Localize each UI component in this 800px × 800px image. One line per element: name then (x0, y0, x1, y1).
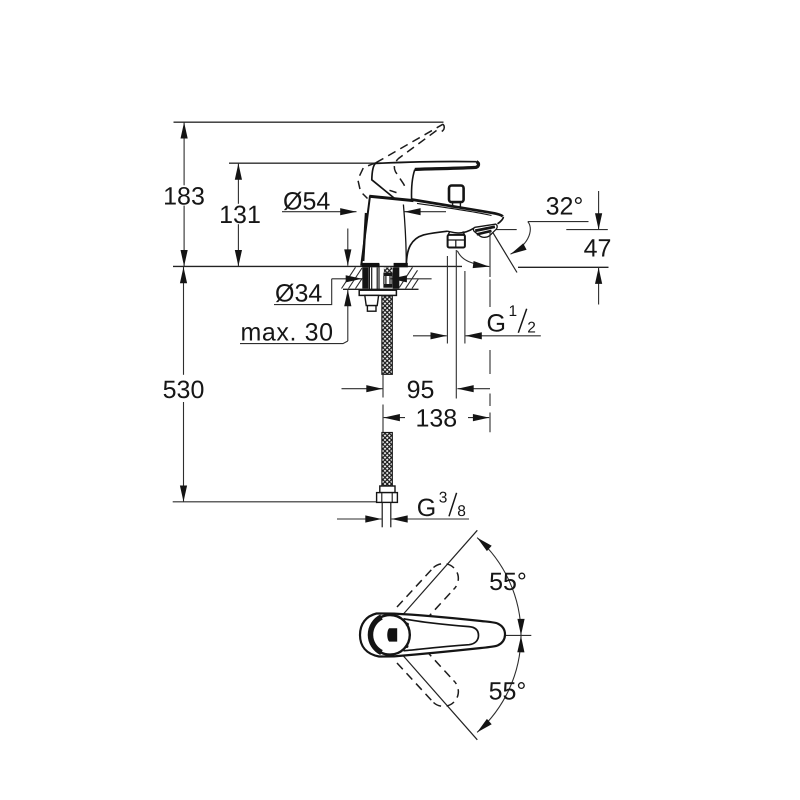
svg-text:G: G (487, 310, 506, 338)
dim 95 extension tick (382, 373, 384, 398)
deck hatching left (342, 267, 363, 288)
connector centre extension line (455, 250, 457, 399)
mounting nut below washer (365, 295, 379, 305)
dim 131 reference line (229, 162, 376, 164)
diverter knob stem (453, 203, 461, 207)
hose G3/8 collar (380, 486, 395, 493)
dim max30 down arrow (347, 229, 349, 266)
dim 47 lower arrow (598, 268, 600, 305)
top view: 55deg lower diagonal (403, 656, 477, 740)
top view: handle slot (387, 628, 397, 641)
spout top edge (412, 200, 503, 217)
lever butt outline (372, 163, 395, 198)
dim 95 left arrow (342, 388, 383, 390)
countertop deck bottom line (343, 288, 419, 290)
base column left edge (361, 196, 370, 266)
svg-text:530: 530 (163, 376, 205, 404)
mounting washer below deck (359, 290, 396, 295)
raised lever lower dashed edge (394, 131, 436, 191)
diverter knob (449, 186, 464, 203)
label G 3/8 (417, 490, 466, 522)
svg-text:131: 131 (219, 201, 261, 229)
dim 138 left arrow (384, 417, 405, 419)
dim 32deg angle arc arrow (511, 222, 531, 255)
dim G12 right extension line (464, 271, 466, 344)
dim G12 left arrow (413, 335, 447, 337)
label G 1/2 (487, 303, 536, 337)
dim max30 up arrow (347, 290, 349, 341)
top view: cap left thick crescent (370, 617, 381, 653)
dim D34 right arrow (391, 278, 432, 280)
dim G38 left arrow (337, 518, 382, 520)
svg-text:95: 95 (407, 376, 435, 404)
solid lever tip and dark underside (415, 162, 479, 170)
svg-text:8: 8 (457, 503, 466, 520)
top view: lower 55 arc (477, 636, 521, 732)
top view: solid handle outer outline (360, 614, 505, 657)
hose G3/8 end pipe (382, 502, 391, 527)
dim D34 left arrow (332, 278, 362, 280)
top view: 55deg upper diagonal (403, 530, 477, 614)
top view: dashed handle rotated up (397, 564, 458, 620)
dim D34 leader riser (274, 279, 332, 305)
svg-text:1: 1 (509, 303, 518, 320)
aerator centre solid line (489, 231, 491, 277)
top view: handle inner surface outline (404, 619, 479, 651)
aerator (473, 224, 497, 237)
raised lever butt bottom dash (390, 190, 397, 192)
svg-text:138: 138 (415, 405, 457, 433)
svg-text:max. 30: max. 30 (241, 318, 334, 346)
svg-text:55°: 55° (489, 678, 527, 706)
dim 47 upper arrow (598, 191, 600, 230)
spout top highlight line (417, 203, 492, 215)
flexible hose lower section (382, 433, 392, 487)
lever neck front edge (412, 170, 415, 200)
hose G3/8 hex nut (377, 493, 398, 503)
dim 530 vertical arrow line (183, 267, 185, 502)
handshower G12 connector body (448, 235, 465, 248)
svg-text:183: 183 (163, 182, 205, 210)
svg-text:G: G (417, 494, 436, 522)
deck hole right black wall (393, 268, 400, 289)
raised lever upper dashed edge (376, 124, 443, 163)
dim D54 right arrow (404, 211, 446, 213)
deck hole left black wall (362, 268, 368, 289)
svg-text:Ø34: Ø34 (275, 279, 322, 307)
svg-text:32°: 32° (546, 192, 584, 220)
spout connector leader arc arrow (457, 251, 489, 267)
top view: marker dots (406, 623, 409, 626)
faucet handle lifted dashed top line contact (358, 124, 444, 198)
body shoulder dark band (369, 196, 413, 200)
dim 138 extension tick (382, 405, 384, 433)
body underside silhouette curve (406, 231, 447, 266)
top view: upper 55 arc (477, 538, 521, 636)
dim G12 right arrow underline (466, 335, 541, 337)
dim 183 vertical arrow line (183, 122, 185, 266)
dim D54 underline leader arrow (282, 211, 357, 213)
dim max30 leader elbow (240, 341, 348, 344)
dim 32deg underline (528, 221, 589, 223)
svg-text:3: 3 (439, 490, 448, 507)
faucet mounting stud through deck (369, 264, 379, 293)
hose nut in deck (383, 273, 392, 276)
flexible hose upper section (382, 296, 392, 375)
dim 183 top reference line (174, 121, 444, 123)
svg-text:2: 2 (527, 320, 536, 337)
raised lever tip cap (437, 124, 445, 132)
dim 47 top reference line (494, 229, 608, 231)
base column right edge (403, 205, 406, 266)
hose crosshatch through deck (384, 268, 392, 273)
spout tip face (498, 217, 504, 224)
aerator outlet extension dashed line (489, 280, 491, 433)
top view: dashed handle rotated down (397, 650, 458, 706)
countertop deck top line (173, 265, 462, 267)
dim 138 right arrow (468, 417, 489, 419)
deck hatching right (399, 267, 418, 288)
solid lever top edge (376, 162, 477, 164)
spray angle line (492, 231, 517, 273)
faucet base bottom dark band (362, 263, 379, 267)
top view: centre line (462, 634, 478, 636)
dim 95 right arrow (457, 388, 490, 390)
spout underside (448, 228, 475, 233)
handshower connector neck (448, 231, 465, 235)
raised lever butt dashed outline (358, 163, 376, 199)
svg-text:47: 47 (584, 235, 612, 263)
dim G12 left extension line (446, 256, 448, 344)
base column left shading (363, 213, 366, 261)
top view: cartridge cap bold circle (370, 615, 410, 655)
dim 131 vertical arrow line (237, 163, 239, 266)
dim G38 right arrow underline (391, 518, 469, 520)
svg-text:55°: 55° (489, 568, 527, 596)
dim 530 bottom reference line (173, 501, 392, 503)
